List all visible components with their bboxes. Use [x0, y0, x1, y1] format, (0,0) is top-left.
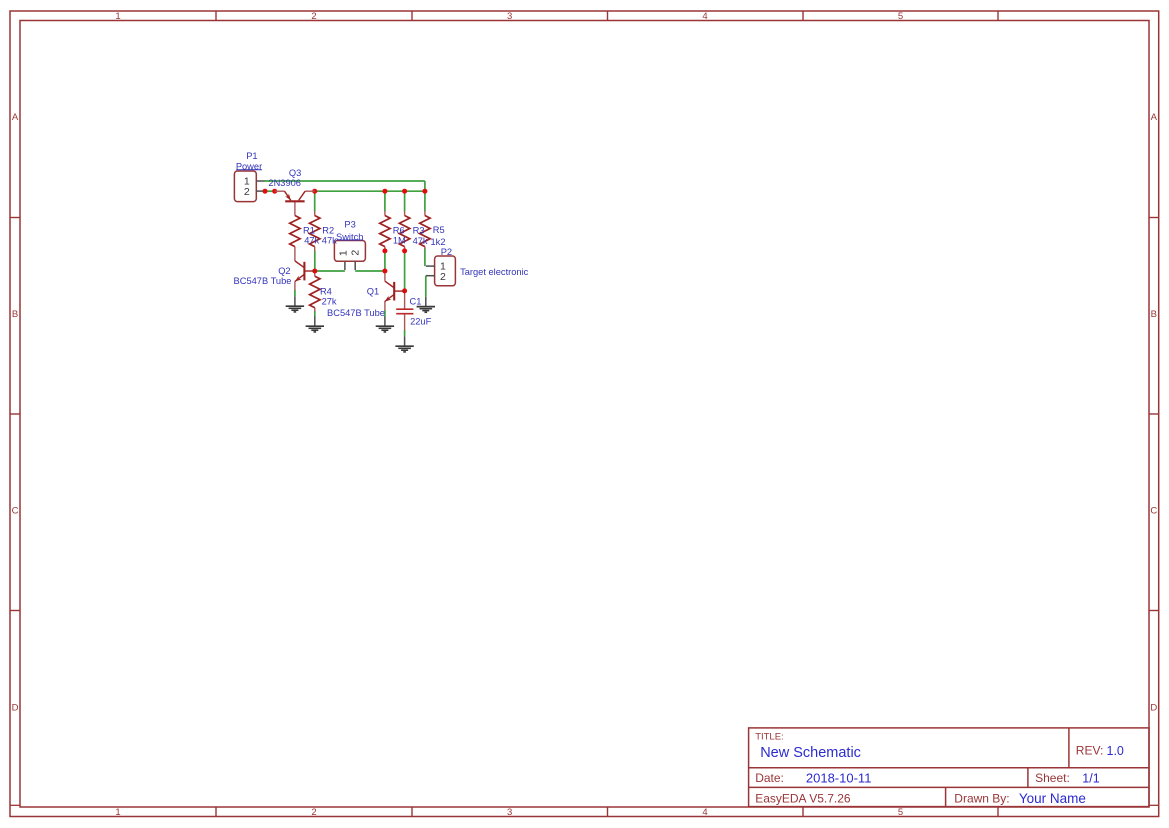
svg-text:New Schematic: New Schematic	[760, 745, 861, 761]
svg-text:1.0: 1.0	[1107, 744, 1124, 758]
svg-text:R1: R1	[303, 226, 315, 236]
svg-text:1: 1	[115, 807, 120, 818]
svg-text:4: 4	[702, 807, 707, 818]
svg-text:2: 2	[350, 250, 362, 256]
svg-text:Q2: Q2	[278, 266, 290, 276]
svg-text:R3: R3	[413, 226, 425, 236]
svg-text:Drawn By:: Drawn By:	[954, 792, 1009, 806]
svg-text:D: D	[12, 702, 19, 713]
svg-text:C: C	[12, 505, 19, 516]
svg-text:D: D	[1150, 702, 1157, 713]
svg-text:4: 4	[702, 11, 707, 22]
svg-text:2: 2	[311, 11, 316, 22]
svg-text:R2: R2	[322, 226, 334, 236]
svg-text:Your Name: Your Name	[1019, 791, 1086, 806]
svg-text:1M: 1M	[393, 235, 406, 245]
svg-text:2: 2	[244, 186, 250, 198]
svg-text:Date:: Date:	[755, 771, 784, 785]
svg-text:B: B	[12, 309, 18, 320]
svg-text:BC547B Tube: BC547B Tube	[234, 276, 292, 286]
svg-text:2: 2	[440, 271, 446, 283]
svg-text:5: 5	[898, 807, 903, 818]
svg-text:27k: 27k	[322, 297, 337, 307]
svg-text:C: C	[1150, 505, 1157, 516]
svg-text:22uF: 22uF	[410, 317, 432, 327]
svg-text:R4: R4	[320, 287, 332, 297]
svg-text:A: A	[12, 112, 19, 123]
svg-text:1: 1	[115, 11, 120, 22]
svg-text:P2: P2	[441, 247, 452, 257]
svg-text:P3: P3	[344, 220, 355, 230]
svg-text:2: 2	[311, 807, 316, 818]
svg-text:5: 5	[898, 11, 903, 22]
svg-text:2N3906: 2N3906	[268, 178, 301, 188]
svg-text:1k2: 1k2	[431, 237, 446, 247]
svg-text:47k: 47k	[322, 236, 337, 246]
svg-text:Q1: Q1	[367, 287, 379, 297]
svg-text:B: B	[1151, 309, 1157, 320]
svg-text:3: 3	[507, 11, 512, 22]
svg-text:Sheet:: Sheet:	[1035, 771, 1070, 785]
svg-text:1: 1	[338, 250, 350, 256]
svg-text:TITLE:: TITLE:	[755, 732, 784, 743]
svg-text:REV:: REV:	[1076, 744, 1104, 758]
svg-text:Q3: Q3	[289, 168, 301, 178]
svg-text:47k: 47k	[413, 236, 428, 246]
svg-text:R6: R6	[393, 226, 405, 236]
svg-text:3: 3	[507, 807, 512, 818]
svg-text:C1: C1	[410, 296, 422, 306]
svg-text:A: A	[1151, 112, 1158, 123]
svg-text:R5: R5	[433, 225, 445, 235]
svg-text:BC547B Tube: BC547B Tube	[327, 308, 385, 318]
svg-text:EasyEDA V5.7.26: EasyEDA V5.7.26	[755, 792, 851, 806]
svg-text:47k: 47k	[304, 236, 319, 246]
svg-text:1/1: 1/1	[1082, 771, 1099, 785]
svg-text:P1: P1	[246, 151, 257, 161]
svg-text:Target electronic: Target electronic	[460, 267, 529, 277]
svg-text:2018-10-11: 2018-10-11	[806, 770, 872, 785]
